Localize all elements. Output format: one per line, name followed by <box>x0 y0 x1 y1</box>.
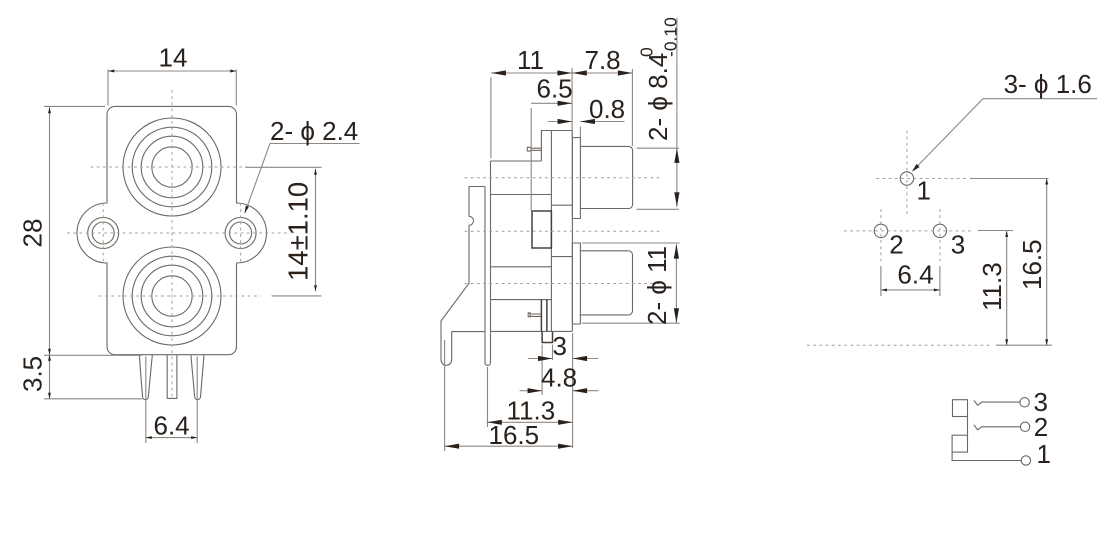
pcb texts <box>889 69 1092 311</box>
arrow dim3.5 top <box>48 355 51 361</box>
arrow dim0.8 left <box>558 119 573 124</box>
side view hat <box>541 131 551 162</box>
svg-text:16.5: 16.5 <box>489 420 540 450</box>
svg-text:3: 3 <box>553 331 567 361</box>
schematic labels <box>1034 387 1051 469</box>
arrow dim11.3 right <box>558 420 573 425</box>
svg-text:16.5: 16.5 <box>1017 239 1047 290</box>
side view bottom barrel <box>580 251 632 315</box>
arrow phi8.4 bottom <box>674 192 679 207</box>
pcb hole 1 <box>900 172 913 185</box>
schematic line 1 <box>952 452 1021 460</box>
arrow dim3 left <box>538 356 553 361</box>
svg-text:7.8: 7.8 <box>585 45 621 75</box>
side view bottom lug <box>530 314 541 316</box>
arrow pcb11.3 bottom <box>1005 339 1008 345</box>
schematic connector vertical <box>967 417 969 436</box>
dim 14 extension+line <box>108 70 236 106</box>
side view dimension texts <box>489 17 681 450</box>
front view left pin <box>139 355 152 399</box>
arrowheads front view <box>48 70 317 440</box>
svg-text:3- ϕ 1.6: 3- ϕ 1.6 <box>1004 69 1092 99</box>
dim 6.4 extension+line (front) <box>146 357 197 444</box>
svg-text:3.5: 3.5 <box>18 356 48 392</box>
arrow pcb6.4 right <box>934 288 940 291</box>
dim 11.3 extension+line <box>487 367 573 427</box>
arrow dim14tol bottom <box>314 285 317 291</box>
pcb bottom reference segment <box>996 344 1052 346</box>
svg-text:11.3: 11.3 <box>977 262 1007 311</box>
schematic line 2 with hook <box>974 425 1020 430</box>
arrow pcb6.4 left <box>881 288 887 291</box>
svg-text:1: 1 <box>917 176 931 206</box>
arrow dim4.8 left <box>528 388 543 393</box>
dim 0.8 extension+line <box>548 122 625 138</box>
arrow dim14 left <box>108 70 114 73</box>
pcb hole 2 <box>874 224 887 237</box>
dim 7.8 extension+line <box>572 69 632 146</box>
arrow dim14 right <box>230 70 236 73</box>
svg-text:28: 28 <box>18 219 48 248</box>
arrow dim14tol top <box>314 169 317 175</box>
side view bracket plate left face <box>484 187 486 332</box>
svg-text:2: 2 <box>1034 412 1048 442</box>
arrow dim11 right <box>557 70 572 75</box>
side view top barrel <box>580 146 632 208</box>
dim 11 extension+line <box>491 68 572 158</box>
dim phi8.4 extension+line <box>637 18 679 209</box>
dim 3.5 extension+line <box>44 355 142 399</box>
side view dark window <box>532 211 553 343</box>
side view bottom block verticals <box>541 300 547 332</box>
svg-text:6.5: 6.5 <box>537 74 573 104</box>
front view middle pin <box>167 355 177 398</box>
arrow dim4.8 right <box>573 388 588 393</box>
svg-text:-0.10: -0.10 <box>661 17 681 57</box>
bottom jack circles <box>123 247 221 345</box>
side view centerlines <box>465 178 662 284</box>
dim 16.5 extension+line <box>445 340 573 451</box>
dim 4.8 extension+line <box>520 390 599 392</box>
dim 11.3 extension+line (pcb) <box>978 231 1013 346</box>
schematic terminal 3 <box>1020 398 1029 407</box>
svg-text:6.4: 6.4 <box>897 260 933 290</box>
front view dimension texts <box>18 43 359 441</box>
arrow leader 2-phi2.4 <box>245 206 249 214</box>
arrow dim7.8 left <box>572 70 587 75</box>
pcb hole 3 <box>933 224 946 237</box>
svg-text:2- ϕ 8.4: 2- ϕ 8.4 <box>643 53 673 141</box>
arrow leader 3-phi1.6 <box>912 164 920 172</box>
side view bracket pin <box>485 332 491 366</box>
leader 3-phi1.6 <box>914 99 1097 170</box>
arrowheads side view <box>445 70 680 448</box>
svg-text:11: 11 <box>517 45 544 75</box>
arrow dim28 bottom <box>48 349 51 355</box>
schematic terminal 1 <box>1021 456 1030 465</box>
svg-text:0: 0 <box>637 47 657 57</box>
dim 16.5 extension+line (pcb) <box>970 179 1049 346</box>
arrow dim3.5 bottom <box>48 393 51 399</box>
svg-text:14±1.10: 14±1.10 <box>283 182 314 281</box>
side view bracket plate and foot <box>441 187 485 366</box>
arrow phi11 bottom <box>674 308 679 323</box>
arrow pcb16.5 top <box>1045 179 1048 185</box>
arrow dim6.4 left <box>146 436 152 439</box>
side view bottom pin <box>542 331 552 342</box>
svg-text:1: 1 <box>1037 439 1051 469</box>
arrow dim11 left <box>491 70 506 75</box>
arrow phi8.4 top <box>674 148 679 163</box>
schematic line 3 with hook <box>974 400 1020 405</box>
arrow pcb11.3 top <box>1005 231 1008 237</box>
arrow dim0.8 right <box>580 119 595 124</box>
schematic contact square upper <box>953 400 968 417</box>
arrow dim6.5 right <box>558 101 573 106</box>
svg-text:2- ϕ 2.4: 2- ϕ 2.4 <box>270 116 358 146</box>
arrow phi11 top <box>674 244 679 259</box>
schematic contact square lower <box>952 435 967 452</box>
front view right pin <box>191 355 204 399</box>
side view top lug <box>531 148 542 150</box>
svg-text:4.8: 4.8 <box>541 363 577 393</box>
svg-text:2- ϕ 11: 2- ϕ 11 <box>642 246 672 325</box>
right ear hole <box>225 218 256 249</box>
schematic terminal 2 <box>1020 422 1029 431</box>
side view body <box>491 161 573 332</box>
dim 6.4 extension+line (pcb) <box>881 266 940 296</box>
side view bottom flange <box>572 243 580 324</box>
front view body outline <box>77 106 267 354</box>
arrow dim11.3 left <box>487 420 502 425</box>
side view top flange <box>572 138 580 219</box>
dim phi11 extension+line <box>582 243 680 323</box>
svg-text:0.8: 0.8 <box>589 94 625 124</box>
pcb centerlines <box>807 131 990 346</box>
svg-text:2: 2 <box>889 230 903 260</box>
leader 2-phi2.4 <box>245 144 360 214</box>
arrow dim6.4 right <box>191 436 197 439</box>
front view centerlines <box>67 90 291 399</box>
dim 28 extension+line <box>44 106 142 355</box>
side view body internal lines <box>491 195 552 300</box>
arrowheads pcb view <box>881 164 1048 345</box>
dim 14±1.10 extension+line <box>245 167 321 296</box>
arrow pcb16.5 bottom <box>1045 339 1048 345</box>
svg-text:6.4: 6.4 <box>154 411 190 441</box>
svg-text:14: 14 <box>159 43 188 73</box>
dim 3 extension+line <box>528 333 599 448</box>
dim 6.5 extension+line <box>531 103 572 210</box>
arrow dim3 right <box>573 356 588 361</box>
arrow dim7.8 right <box>618 70 633 75</box>
side view column <box>551 131 572 332</box>
arrow dim16.5 left <box>445 444 460 449</box>
svg-text:3: 3 <box>951 230 965 260</box>
top jack circles <box>123 118 221 216</box>
arrow dim16.5 right <box>558 444 573 449</box>
arrow dim28 top <box>48 107 51 113</box>
left ear hole <box>88 218 119 249</box>
